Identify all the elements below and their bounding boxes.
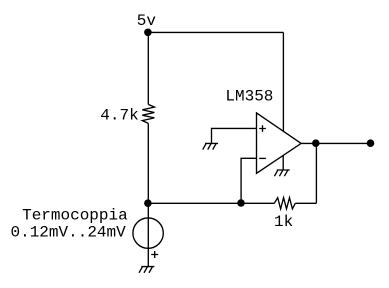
svg-text:0.12mV..24mV: 0.12mV..24mV — [11, 224, 127, 242]
ground (thermocouple) — [139, 267, 154, 273]
wire op-amp V+ supply vertical — [282, 32, 284, 131]
svg-text:4.7k: 4.7k — [100, 106, 138, 124]
svg-text:Termocoppia: Termocoppia — [22, 206, 128, 224]
node C output junction dot — [312, 139, 320, 147]
op-amp plus input mark — [259, 125, 266, 132]
voltage source V1 thermocouple circle — [133, 218, 163, 248]
op-amp U1 LM358 triangle — [257, 113, 302, 173]
wire inverting input net (node B up and right to op-amp minus) — [241, 158, 256, 203]
wire thermocouple vertical (node B through source to ground) — [147, 203, 149, 266]
svg-text:1k: 1k — [274, 213, 293, 231]
svg-text:5v: 5v — [137, 12, 157, 30]
wire output (apex to terminal) — [301, 142, 370, 144]
wire op-amp V- stub — [282, 155, 284, 170]
wire left column upper (5v node to R1 top) — [147, 32, 149, 104]
wire feedback vertical (output down to 1k) — [315, 143, 317, 203]
node B junction dot inverting bus — [237, 199, 245, 207]
wire 1k right lead — [295, 202, 316, 204]
node A junction dot at 5v rail — [144, 29, 152, 37]
resistor R1 4.7k (vertical zigzag) — [142, 104, 154, 123]
svg-text:LM358: LM358 — [225, 87, 273, 105]
wire non-inverting input to ground — [212, 128, 257, 143]
resistor R2 1k (horizontal zigzag) — [274, 198, 295, 209]
wire bottom bus (thermo node to 1k left lead) — [148, 202, 274, 204]
wire left column lower (R1 bottom to node B) — [147, 123, 149, 203]
ground (non-inverting input) — [203, 143, 218, 149]
polarity plus mark — [151, 251, 158, 258]
ground (op-amp V- pin) — [274, 170, 289, 176]
wire top rail 5v horizontal — [148, 31, 284, 33]
node D output terminal dot — [367, 139, 375, 147]
node E junction dot thermocouple bus — [144, 199, 152, 207]
op-amp minus input mark — [259, 157, 266, 159]
